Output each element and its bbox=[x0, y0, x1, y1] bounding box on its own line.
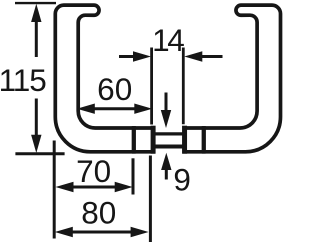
dim 70: right arrowhead bbox=[115, 182, 133, 192]
dim 9: down arrowhead bbox=[161, 110, 171, 128]
dim 115: up arrowhead bbox=[31, 4, 41, 22]
dim 14: right arrowhead bbox=[184, 51, 202, 61]
dim 9: down arrow shaft bbox=[165, 93, 168, 113]
dim 60: left arrowhead bbox=[77, 104, 95, 114]
left handle outline bbox=[55, 5, 134, 152]
left block end cap line bbox=[151, 126, 156, 154]
dim 14: right extension line bbox=[182, 48, 185, 125]
right handle neck block bbox=[185, 128, 204, 152]
dim 14: left extension line bbox=[150, 48, 153, 125]
right block end cap line bbox=[182, 126, 187, 154]
svg-text:115: 115 bbox=[0, 62, 46, 98]
dim 70: left arrowhead bbox=[56, 182, 74, 192]
dim 60: line bbox=[92, 107, 136, 110]
dim 80: right arrowhead bbox=[131, 227, 149, 237]
dim 80: left arrowhead bbox=[55, 227, 73, 237]
dim 115: top tick bbox=[15, 2, 56, 4]
dim 14: right arrow shaft bbox=[200, 55, 223, 58]
left handle neck block bbox=[134, 128, 153, 152]
dim 9: up arrow shaft bbox=[165, 169, 168, 180]
dim 80: line bbox=[71, 231, 134, 234]
dim 70/80: left extension line bbox=[53, 141, 56, 239]
left handle divider line bbox=[132, 126, 136, 153]
svg-text:60: 60 bbox=[97, 71, 132, 107]
dim 115: vertical line lower seg bbox=[35, 99, 38, 142]
dim 115: bottom tick bbox=[15, 152, 64, 155]
dim 9: up arrowhead bbox=[161, 153, 171, 170]
right handle outline bbox=[204, 5, 281, 152]
dim 60: right arrowhead bbox=[134, 104, 152, 114]
svg-text:9: 9 bbox=[173, 162, 191, 198]
dim 70: line bbox=[71, 186, 116, 189]
spindle top line bbox=[153, 132, 185, 135]
dim 14: left arrow shaft bbox=[119, 55, 134, 58]
right handle divider line bbox=[202, 126, 206, 153]
svg-text:70: 70 bbox=[76, 153, 111, 189]
svg-text:80: 80 bbox=[81, 195, 116, 231]
dim 14: left arrowhead bbox=[133, 51, 151, 61]
dim 80: right extension line bbox=[149, 156, 152, 243]
svg-text:14: 14 bbox=[152, 22, 184, 58]
dim 70: right extension line bbox=[132, 158, 135, 194]
spindle bottom line bbox=[153, 145, 185, 149]
dim 115: down arrowhead bbox=[31, 135, 41, 153]
dim 115: vertical line upper seg bbox=[35, 16, 38, 57]
